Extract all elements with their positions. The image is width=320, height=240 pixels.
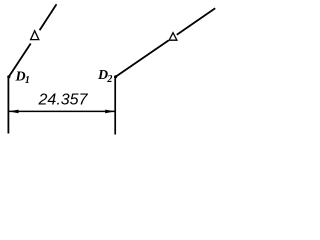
svg-text:24.357: 24.357	[38, 92, 89, 109]
